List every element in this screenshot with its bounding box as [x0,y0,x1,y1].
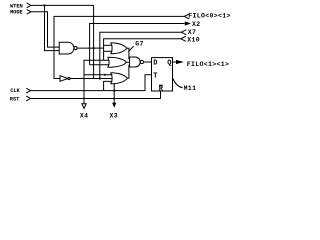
wire OR2 bottom input stub [90,64,110,66]
inverter U2 bubble [68,77,70,79]
wire X7 line [100,32,182,78]
wire FILO0 feedback line to inverter [54,16,184,78]
svg-text:CLK: CLK [10,88,20,94]
wire MODE to NAND input [31,12,60,47]
output port X2 arrow [185,21,191,25]
node inverter-output/X7 junction dot [99,77,101,79]
nand gate G1 body [59,42,74,54]
wire OR2 top input stub [104,59,110,61]
svg-text:D: D [153,59,157,67]
svg-text:WTEN: WTEN [10,3,23,9]
svg-text:X10: X10 [187,36,200,43]
wire OR1 output into G7 [127,48,130,59]
svg-text:T: T [153,72,157,80]
wire RST to R pin [30,91,160,99]
svg-text:FILO<0><1>: FILO<0><1> [188,13,231,20]
wire OR3 output into G7 [128,65,130,78]
svg-text:R: R [159,86,164,94]
wire WTEN tap down to NAND input [45,5,60,50]
or gate G4 (OR3) bottom edge [111,78,128,84]
leader line G7 [128,46,133,51]
or gate G2 (OR1) back [111,43,113,54]
svg-text:X7: X7 [188,29,197,36]
svg-text:Q: Q [167,59,171,67]
svg-text:RST: RST [10,96,20,102]
output port FILO<0><1> open arrow [184,14,189,19]
wire inverter output to OR3 [70,78,112,80]
wire OR1 top input stub [104,44,113,46]
input port MODE connector [27,9,31,14]
svg-text:X3: X3 [110,113,119,120]
output port FILO<1><1> arrow [176,60,184,64]
svg-text:MODE: MODE [10,10,24,16]
overbar of R [159,84,163,86]
or gate G3 (OR2) back [108,57,110,67]
wire OR3 bottom input stub from CLK [104,81,113,90]
inverter U2 triangle [60,76,68,82]
svg-text:X2: X2 [192,21,201,28]
leader line M11 [173,79,183,88]
or gate G3 (OR2) bottom edge [108,62,127,67]
flip-flop M11 box [152,58,173,91]
or gate G4 (OR3) top edge [111,73,128,79]
wire n1 continue right [94,47,104,49]
or gate G2 (OR1) top edge [111,43,128,49]
arrow X4 open head [82,104,86,109]
nand gate G7 bubble [140,60,143,63]
output port X7 open arrow [181,30,186,35]
wire Q output [173,61,177,63]
wire detour net OR2/OR3/X4 [84,60,112,75]
nand gate G7 body [130,57,141,67]
or gate G3 (OR2) top edge [108,57,127,62]
svg-text:G7: G7 [135,40,144,47]
wire OR2 output into G7 [127,61,130,63]
wire OR1 bottom input [104,50,113,52]
node n1 junction dot [93,47,95,49]
svg-text:M11: M11 [184,85,197,92]
node CLK/X3 junction dot [113,90,115,92]
input port RST connector [26,96,30,101]
wire X4 tap down with open arrow [83,75,85,104]
input port WTEN connector [27,3,31,8]
arrow X3 filled head [112,103,116,108]
or gate G2 (OR1) bottom edge [111,48,128,54]
node OR3 top input junction dot [104,74,106,76]
wire X3 tap down [113,84,115,103]
svg-text:FILO<1><1>: FILO<1><1> [187,61,230,68]
input port CLK connector [26,88,30,93]
wire CLK to T pin [30,75,151,91]
wire WTEN right riser down [93,5,95,78]
wire NAND output to node [77,47,94,49]
wire WTEN horizontal [31,4,94,6]
wire X2 line [90,24,185,65]
output port X10 open arrow [181,36,186,41]
or gate G4 (OR3) back [111,73,113,84]
node WTEN junction dot [43,4,45,6]
wire G7 output to D pin [144,61,152,63]
wire X10 line [104,39,181,61]
nand gate G1 bubble [74,47,77,50]
svg-text:X4: X4 [80,113,89,120]
